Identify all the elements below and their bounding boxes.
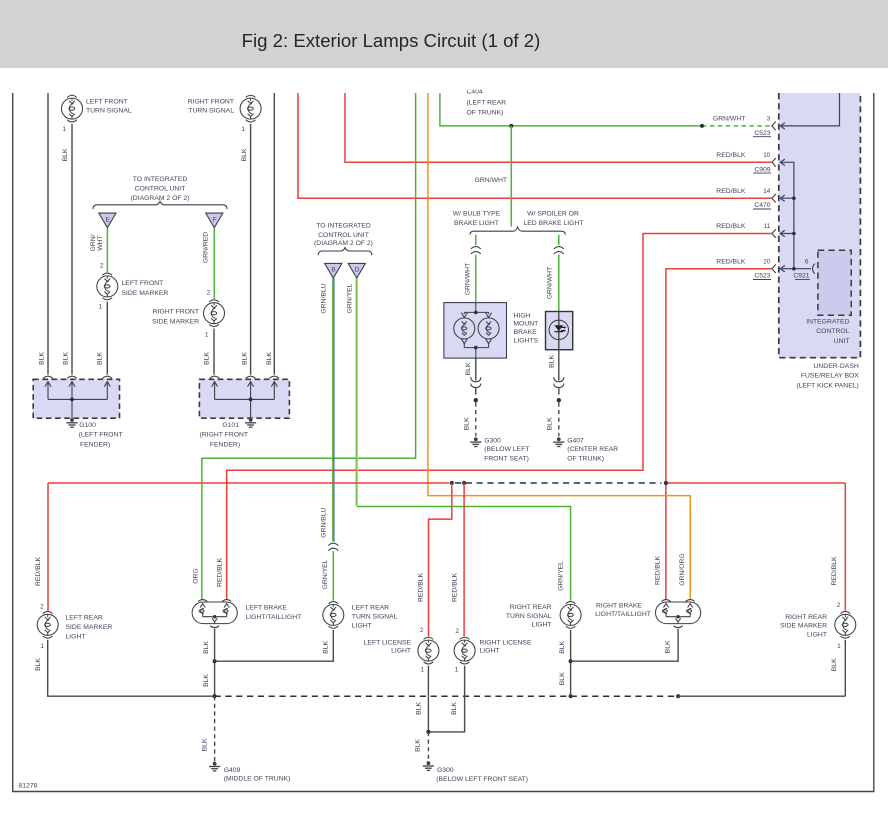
pin 3 terminal [772,122,776,131]
wire BLK stub to splice (right) [558,388,560,395]
connector F [206,213,223,228]
svg-text:(LEFT KICK PANEL): (LEFT KICK PANEL) [796,382,858,389]
svg-text:BLK: BLK [203,641,210,654]
svg-text:C909: C909 [754,166,770,173]
svg-text:6: 6 [805,258,809,265]
svg-text:TURN SIGNAL: TURN SIGNAL [86,108,132,115]
svg-text:TURN SIGNAL: TURN SIGNAL [506,613,552,620]
connector D [348,263,365,278]
svg-text:LIGHT: LIGHT [352,623,372,630]
svg-text:(BELOW LEFT: (BELOW LEFT [484,446,529,453]
svg-text:C523: C523 [754,273,770,280]
svg-text:LEFT BRAKE: LEFT BRAKE [246,605,288,612]
svg-text:2: 2 [455,628,459,635]
svg-text:(MIDDLE OF TRUNK): (MIDDLE OF TRUNK) [224,776,291,783]
ground box G100 [33,379,119,418]
banner [0,0,888,68]
svg-text:RED/BLK: RED/BLK [35,556,42,586]
wire BLK vertical to G101 (right) [273,93,275,375]
svg-text:BLK: BLK [35,658,42,671]
wire GRN/WHT dashed to pin 3 [702,125,772,127]
wire BLK dashed ground bus (right span) [571,695,679,697]
svg-text:TURN SIGNAL: TURN SIGNAL [352,614,398,621]
svg-text:RED/BLK: RED/BLK [831,556,838,586]
wire RED/BLK to right license light [463,483,465,636]
svg-text:3: 3 [767,116,771,123]
svg-text:GRN/ORG: GRN/ORG [679,553,686,585]
ground G300 symbol [427,761,431,765]
pin 3 arrow [780,123,785,129]
wire BLK right front turn signal to G101 [250,124,252,375]
svg-text:GRN/WHT: GRN/WHT [475,177,507,184]
svg-text:G300: G300 [437,767,454,774]
wire BLK ground bus to right side marker [678,640,845,696]
wire RED/BLK tail feed right segment [668,483,845,611]
svg-text:RED/BLK: RED/BLK [716,152,746,159]
svg-text:OF TRUNK): OF TRUNK) [567,455,604,462]
svg-text:1: 1 [98,304,102,311]
svg-text:11: 11 [764,223,771,230]
ground G100 symbol [70,418,74,422]
wire dashed tail feed middle segment [455,482,662,484]
svg-text:C404: C404 [467,88,483,95]
svg-text:F: F [213,216,217,223]
svg-text:RIGHT BRAKE: RIGHT BRAKE [596,602,642,609]
svg-text:B: B [331,267,336,274]
svg-text:20: 20 [763,258,771,265]
svg-text:RIGHT REAR: RIGHT REAR [785,614,827,621]
svg-text:TURN SIGNAL: TURN SIGNAL [188,108,234,115]
wire BLK right front side marker to G101 [213,329,215,375]
svg-text:G409: G409 [224,767,241,774]
wire BLK stub to splice (left) [475,388,477,395]
svg-text:BLK: BLK [547,417,554,430]
connector break below LED unit [554,377,564,382]
lamp right rear side marker [841,611,851,613]
junction on internal bus at pin 14 [792,196,796,200]
pin 11 terminal [772,229,776,238]
junction left ground bus join [213,694,217,698]
wire BLK left rear side marker to splice [48,640,214,696]
svg-text:RED/BLK: RED/BLK [716,223,746,230]
svg-text:FUSE/RELAY BOX: FUSE/RELAY BOX [801,373,859,380]
svg-text:(LEFT REAR: (LEFT REAR [467,100,507,107]
svg-text:RED/BLK: RED/BLK [655,555,662,585]
wire GRN/WHT right branch [558,235,560,245]
wire BLK right rear turn signal drop [570,630,572,696]
svg-text:RED/BLK: RED/BLK [451,572,458,602]
svg-text:LIGHT: LIGHT [480,648,500,655]
wire BLK right taillight drop [571,629,679,661]
svg-text:LIGHTS: LIGHTS [514,338,539,345]
pin 14 terminal [772,194,776,203]
svg-text:LIGHT: LIGHT [66,634,86,641]
svg-text:BLK: BLK [39,352,46,365]
pin 20 arrow [780,266,785,272]
svg-text:G100: G100 [79,422,96,429]
wire ORG (green) to left taillight [202,93,416,599]
wire GRN/YEL across to right rear turn signal [357,507,571,601]
svg-text:UNDER-DASH: UNDER-DASH [813,363,858,370]
svg-text:GRN/YEL: GRN/YEL [557,561,564,591]
svg-text:GRN/WHT: GRN/WHT [713,116,745,123]
svg-text:BLK: BLK [63,352,70,365]
wire GRN/WHT left branch [475,235,477,245]
inline connector left branch [471,247,481,249]
svg-text:1: 1 [455,667,459,674]
svg-text:BLK: BLK [465,362,472,375]
svg-text:BLK: BLK [62,148,69,161]
fuse box internal wire from pin 3 [780,93,839,126]
svg-text:LED BRAKE LIGHT: LED BRAKE LIGHT [523,220,583,227]
svg-text:TO INTEGRATED: TO INTEGRATED [316,223,371,230]
svg-text:RED/BLK: RED/BLK [417,572,424,602]
lamp right brake light/taillight [656,602,701,624]
svg-text:SIDE MARKER: SIDE MARKER [780,623,827,630]
svg-text:ORG: ORG [192,568,199,583]
svg-text:BLK: BLK [831,658,838,671]
wire BLK left front side marker to G100 [106,302,108,375]
svg-text:BLK: BLK [201,738,208,751]
lamp right license light [460,637,470,639]
svg-text:C921: C921 [793,273,809,280]
wire BLK left rear turn signal to junction [215,630,334,661]
svg-text:MOUNT: MOUNT [513,321,538,328]
wire RED/BLK to pin 10 [345,93,772,162]
wire GRN/BLU from connector B [332,278,334,542]
svg-text:LEFT FRONT: LEFT FRONT [86,99,128,106]
ground G300 (brake light) [474,437,478,441]
svg-text:SIDE MARKER: SIDE MARKER [122,290,169,297]
brace over connectors E and F [93,201,227,209]
svg-text:(RIGHT FRONT: (RIGHT FRONT [200,432,249,439]
svg-text:HIGH: HIGH [514,313,531,320]
svg-text:LIGHT: LIGHT [807,632,827,639]
svg-text:WHT: WHT [97,235,104,250]
svg-text:2: 2 [100,262,104,269]
lamp left rear side marker [43,611,53,613]
splice dot on G407 drop [557,398,561,402]
svg-text:RED/BLK: RED/BLK [217,557,224,587]
svg-text:2: 2 [40,604,44,611]
svg-text:1: 1 [837,643,841,650]
svg-text:BLK: BLK [416,702,423,715]
svg-text:W/ BULB TYPE: W/ BULB TYPE [453,211,501,218]
svg-text:C470: C470 [754,202,770,209]
svg-text:2: 2 [837,602,841,609]
split brace for brake light options [470,227,565,235]
svg-text:BLK: BLK [204,352,211,365]
svg-text:FRONT SEAT): FRONT SEAT) [484,455,529,462]
svg-text:2: 2 [207,290,211,297]
splice dot right license tap [462,481,466,485]
wire GRN/YEL to left rear turn signal [332,551,334,600]
wire BLK dashed ground bus (left span) [215,695,571,697]
ground box G101 [199,379,289,418]
svg-text:(CENTER REAR: (CENTER REAR [567,446,618,453]
svg-text:TO INTEGRATED: TO INTEGRATED [133,176,188,183]
junction right turn ground join [569,694,573,698]
svg-text:BLK: BLK [415,739,422,752]
svg-text:SIDE MARKER: SIDE MARKER [152,319,199,326]
svg-text:CONTROL UNIT: CONTROL UNIT [318,232,369,239]
svg-text:RIGHT FRONT: RIGHT FRONT [153,309,199,316]
svg-text:BLK: BLK [242,352,249,365]
fuse box internal bus pins 10-14-11-20 [780,162,811,268]
svg-text:BLK: BLK [266,352,273,365]
lamp high mount brake light (LED type) [546,312,573,350]
lamp left front side marker [103,273,113,275]
splice dot right taillight tap [664,481,668,485]
svg-text:10: 10 [763,152,771,159]
svg-text:BLK: BLK [559,672,566,685]
lamp right rear turn signal [566,602,576,604]
svg-text:FENDER): FENDER) [80,441,110,448]
svg-text:LIGHT: LIGHT [532,621,552,628]
wire GRN/WHT into LED unit [558,255,560,312]
ground G409 symbol [213,762,217,766]
svg-text:BLK: BLK [451,702,458,715]
svg-text:LEFT REAR: LEFT REAR [352,605,389,612]
brace over connectors B and D [318,248,372,256]
wire RED/BLK tail feed left segment [48,483,449,611]
ground G101 symbol [249,418,253,422]
wire BLK dashed to ground G409 [214,696,216,761]
svg-text:GRN/BLU: GRN/BLU [320,283,327,313]
svg-text:RIGHT REAR: RIGHT REAR [510,604,552,611]
svg-text:G101: G101 [222,422,239,429]
svg-text:BLK: BLK [241,148,248,161]
under-dash fuse/relay box body [779,93,861,358]
svg-text:BLK: BLK [203,674,210,687]
svg-text:SIDE MARKER: SIDE MARKER [66,624,113,631]
svg-text:G407: G407 [567,438,584,445]
lamp left brake light/taillight [192,602,237,624]
wire GRN/WHT connector E to left side marker [106,228,108,273]
wire BLK left taillight drop [214,629,216,696]
svg-text:GRN/YEL: GRN/YEL [322,559,329,589]
lamp high mount brake light (bulb type) [444,303,507,359]
svg-text:FENDER): FENDER) [210,441,240,448]
integrated control unit U1 [818,250,851,315]
svg-text:OF TRUNK): OF TRUNK) [467,109,504,116]
pin 6 terminal of C921 [813,264,815,274]
wire BLK dashed to G300 [475,402,477,436]
svg-text:GRN/WHT: GRN/WHT [464,263,471,295]
pin 20 terminal [772,264,776,273]
wire GRN/WHT into bulb type unit [475,255,477,303]
svg-text:C523: C523 [754,130,770,137]
pin 10 arrow [780,159,785,165]
wire BLK left license to splice [427,666,429,732]
svg-text:(DIAGRAM 2 OF 2): (DIAGRAM 2 OF 2) [314,240,373,247]
lamp left license light [424,637,434,639]
svg-text:CONTROL: CONTROL [816,328,849,335]
svg-text:RIGHT FRONT: RIGHT FRONT [188,99,234,106]
lamp left front turn signal [67,95,77,97]
svg-text:BRAKE: BRAKE [514,329,538,336]
junction license lights ground splice [426,730,430,734]
svg-text:RIGHT LICENSE: RIGHT LICENSE [480,639,532,646]
wire BLK vertical to G100 (left) [47,93,49,375]
svg-text:INTEGRATED: INTEGRATED [806,319,849,326]
connector break below bulb unit [471,377,481,382]
svg-text:2: 2 [420,627,424,634]
svg-text:CONTROL UNIT: CONTROL UNIT [135,186,186,193]
wire GRN/RED connector F to right side marker [213,228,215,299]
wire BLK left front turn signal to G100 [71,124,73,375]
svg-text:E: E [105,216,110,223]
splice dot left license tap [450,481,454,485]
svg-text:G300: G300 [484,438,501,445]
inline connector on left rear turn wire [328,543,338,545]
svg-text:LIGHT/TAILLIGHT: LIGHT/TAILLIGHT [595,611,651,618]
wire GRN/WHT trunk feed [440,93,702,126]
svg-text:RED/BLK: RED/BLK [716,258,746,265]
wire RED/BLK pin 20 down to right taillight [666,269,772,600]
junction on internal bus at pin 20 [792,267,796,271]
wire BLK below LED unit [558,350,560,381]
pin 14 arrow [780,195,785,201]
svg-text:BLK: BLK [549,355,556,368]
svg-text:(LEFT FRONT: (LEFT FRONT [79,432,123,439]
wire RED/BLK to left license light [429,483,452,636]
svg-text:1: 1 [62,126,66,133]
svg-text:UNIT: UNIT [834,338,850,345]
svg-text:LIGHT: LIGHT [391,648,411,655]
connector B [325,263,342,278]
svg-text:LEFT FRONT: LEFT FRONT [122,280,164,287]
svg-text:BLK: BLK [97,352,104,365]
title [0,30,782,52]
wire BLK right license to splice [428,666,464,732]
ground G407 symbol [557,437,561,441]
svg-text:LEFT LICENSE: LEFT LICENSE [364,639,412,646]
splice dot on G300 drop [474,398,478,402]
svg-text:14: 14 [763,188,771,195]
lamp right front side marker [209,300,219,302]
wire GRN/YEL from connector D [355,278,357,506]
svg-text:GRN/YEL: GRN/YEL [346,283,353,313]
svg-text:W/ SPOILER OR: W/ SPOILER OR [527,211,579,218]
wire BLK dashed to G407 [558,402,560,436]
inline connector right branch [554,247,564,249]
junction right taillight ground join [676,694,680,698]
svg-text:LEFT REAR: LEFT REAR [66,615,103,622]
junction GRN/WHT at brake light tap [509,124,513,128]
pin 10 terminal [772,158,776,167]
wire RED/BLK pin 11 to left taillight [227,234,773,600]
connector E [99,213,116,228]
wire BLK below bulb type unit [475,358,477,381]
svg-text:BLK: BLK [559,640,566,653]
svg-text:RED/BLK: RED/BLK [716,188,746,195]
svg-text:81278: 81278 [19,783,38,790]
junction right rear turn and taillight grounds [569,659,573,663]
lamp right front turn signal [246,95,256,97]
junction on internal bus at pin 11 [792,232,796,236]
wire GRN/WHT down to split [510,126,512,227]
svg-text:BLK: BLK [322,640,329,653]
junction GRN/WHT dashed start [700,124,704,128]
svg-text:LIGHT/TAILLIGHT: LIGHT/TAILLIGHT [246,614,302,621]
svg-text:D: D [355,267,360,274]
svg-text:GRN/BLU: GRN/BLU [321,507,328,537]
svg-text:1: 1 [205,332,209,339]
svg-text:BLK: BLK [464,417,471,430]
svg-text:1: 1 [241,126,245,133]
wire RED/BLK to pin 14 [298,93,772,198]
svg-text:GRN/: GRN/ [90,234,97,251]
svg-text:BRAKE LIGHT: BRAKE LIGHT [454,220,499,227]
wire BLK dashed to ground G300 [427,732,429,761]
svg-text:(BELOW LEFT FRONT SEAT): (BELOW LEFT FRONT SEAT) [436,776,528,783]
svg-text:GRN/WHT: GRN/WHT [547,267,554,299]
junction left turn signal ground join [213,659,217,663]
wire ORG vertical feed [428,93,690,599]
lamp left rear turn signal [329,602,339,604]
svg-text:GRN/RED: GRN/RED [203,232,210,263]
svg-text:BLK: BLK [665,640,672,653]
svg-text:1: 1 [420,667,424,674]
pin 11 arrow [780,230,785,236]
svg-text:1: 1 [40,643,44,650]
